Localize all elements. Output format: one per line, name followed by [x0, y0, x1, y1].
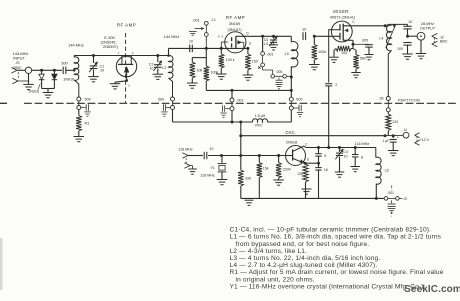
- svg-text:OUTPUT: OUTPUT: [420, 27, 436, 31]
- svg-text:10: 10: [189, 39, 193, 43]
- svg-text:100 k: 100 k: [226, 58, 235, 62]
- svg-text:BNC: BNC: [440, 40, 448, 44]
- svg-text:5: 5: [324, 154, 326, 158]
- svg-text:.05: .05: [379, 96, 384, 100]
- svg-text:+12 V: +12 V: [420, 138, 430, 142]
- svg-text:10: 10: [100, 69, 104, 73]
- svg-text:in original unit, 220 ohms.: in original unit, 220 ohms.: [236, 276, 315, 283]
- svg-text:2N5397): 2N5397): [103, 44, 119, 49]
- svg-text:Y1: Y1: [210, 166, 214, 170]
- svg-text:10: 10: [344, 154, 348, 158]
- svg-text:10: 10: [408, 20, 412, 24]
- svg-text:Y1 — 116-MHz overtone crystal: Y1 — 116-MHz overtone crystal (Internati…: [230, 283, 424, 290]
- svg-text:.005: .005: [361, 38, 368, 42]
- svg-text:116 MHz: 116 MHz: [355, 142, 370, 146]
- svg-text:2N918: 2N918: [286, 140, 297, 144]
- svg-text:8: 8: [361, 155, 363, 159]
- svg-text:S: S: [249, 42, 251, 46]
- svg-text:500: 500: [61, 62, 67, 66]
- svg-text:500: 500: [296, 98, 302, 102]
- svg-text:L3 — 4 turns No. 22, 1/4-inch: L3 — 4 turns No. 22, 1/4-inch dia, 5/16 …: [230, 255, 381, 262]
- svg-text:.001: .001: [192, 18, 199, 22]
- svg-text:18: 18: [324, 168, 328, 172]
- svg-text:E: E: [307, 157, 309, 161]
- svg-text:2: 2: [335, 83, 337, 87]
- svg-text:330: 330: [245, 177, 251, 181]
- svg-text:560: 560: [360, 57, 366, 61]
- svg-text:40673 (3N141): 40673 (3N141): [330, 15, 356, 19]
- svg-text:.005: .005: [276, 70, 283, 74]
- svg-text:2200: 2200: [283, 168, 291, 172]
- svg-text:.001: .001: [267, 53, 274, 57]
- svg-text:10: 10: [302, 28, 306, 32]
- svg-text:J-1: J-1: [211, 18, 216, 22]
- svg-text:MIXER: MIXER: [333, 9, 349, 14]
- svg-text:PARTITION: PARTITION: [398, 99, 420, 103]
- svg-text:28-MHz: 28-MHz: [421, 22, 434, 26]
- svg-text:RF AMP: RF AMP: [117, 22, 136, 27]
- svg-text:100: 100: [397, 47, 403, 51]
- svg-text:+: +: [397, 136, 399, 140]
- svg-text:500: 500: [158, 97, 164, 101]
- svg-text:1N916: 1N916: [63, 78, 74, 82]
- svg-text:500: 500: [85, 97, 91, 101]
- svg-text:L4 — 2.7 to 4.2-µH slug-tuned: L4 — 2.7 to 4.2-µH slug-tuned coil (Mill…: [230, 262, 378, 269]
- svg-text:RFC: RFC: [255, 124, 263, 128]
- svg-text:116 MHz: 116 MHz: [200, 174, 215, 178]
- svg-text:R1 — Adjust for 5 mA drain cur: R1 — Adjust for 5 mA drain current, or l…: [230, 269, 444, 276]
- svg-text:RF AMP: RF AMP: [226, 15, 245, 20]
- svg-text:R1: R1: [85, 121, 90, 125]
- svg-text:.001: .001: [236, 98, 243, 102]
- svg-text:OSC.: OSC.: [285, 130, 296, 135]
- svg-text:L3: L3: [285, 52, 289, 56]
- svg-text:L1 — 6 turns No. 16, 3/8-inch: L1 — 6 turns No. 16, 3/8-inch dia, space…: [230, 234, 442, 241]
- svg-text:144 MHz: 144 MHz: [164, 34, 180, 39]
- svg-text:15k: 15k: [263, 167, 269, 171]
- svg-text:120: 120: [392, 120, 398, 124]
- svg-text:L4: L4: [379, 36, 383, 40]
- svg-text:from bypassed end, or for best: from bypassed end, or for best noise fig…: [236, 241, 370, 248]
- svg-text:1N916: 1N916: [28, 90, 39, 94]
- svg-text:J4: J4: [403, 128, 407, 132]
- svg-text:100k: 100k: [318, 50, 326, 54]
- svg-text:116 MHz: 116 MHz: [178, 148, 193, 152]
- svg-text:10: 10: [210, 147, 214, 151]
- svg-text:1 µF: 1 µF: [382, 139, 389, 143]
- svg-text:10k: 10k: [197, 69, 203, 73]
- svg-text:10: 10: [149, 67, 153, 71]
- svg-text:L5: L5: [385, 169, 389, 173]
- svg-text:100: 100: [341, 51, 347, 55]
- svg-text:.001: .001: [387, 191, 394, 195]
- svg-text:144 MHz: 144 MHz: [68, 42, 84, 47]
- svg-text:150: 150: [252, 60, 258, 64]
- svg-text:SeekIC.com: SeekIC.com: [404, 284, 460, 295]
- svg-text:1.5 µH: 1.5 µH: [255, 114, 266, 118]
- svg-text:120: 120: [297, 172, 303, 176]
- svg-text:L2 — 4-3/4 turns, like L1.: L2 — 4-3/4 turns, like L1.: [230, 248, 308, 255]
- svg-text:B: B: [278, 154, 280, 158]
- svg-text:1.0: 1.0: [263, 42, 268, 46]
- svg-text:3N159: 3N159: [229, 21, 240, 26]
- svg-text:C1-C4, incl. — 10-pF tubular c: C1-C4, incl. — 10-pF tubular ceramic tri…: [230, 227, 432, 234]
- svg-text:J5: J5: [404, 197, 408, 201]
- svg-text:L2: L2: [162, 66, 166, 70]
